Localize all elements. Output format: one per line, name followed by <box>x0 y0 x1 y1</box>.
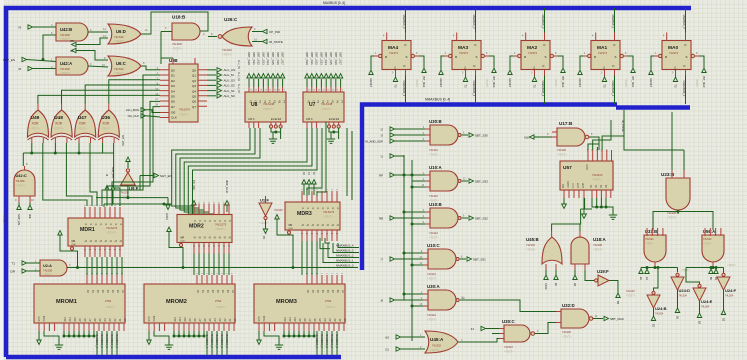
svg-text:<TEXT>: <TEXT> <box>592 178 602 182</box>
svg-text:74LS04: 74LS04 <box>679 295 688 298</box>
terminal SOP_EN <box>22 57 27 61</box>
svg-text:<TEXT>: <TEXT> <box>485 79 488 89</box>
svg-text:D: D <box>404 64 406 68</box>
wire U24:E output <box>699 301 701 313</box>
svg-text:SBT_S33: SBT_S33 <box>319 52 323 65</box>
wire xor staircase 1 <box>66 143 92 206</box>
svg-text:Q1: Q1 <box>192 74 196 78</box>
svg-text:Y6_AND_SOP: Y6_AND_SOP <box>365 140 383 144</box>
svg-text:XOR: XOR <box>79 122 87 126</box>
ALU output terminals of U38 <box>207 69 216 71</box>
wire U45:A out to U30:C <box>458 339 499 343</box>
svg-text:<TEXT>: <TEXT> <box>429 236 439 240</box>
svg-text:D: D <box>614 43 616 47</box>
svg-text:VPP: VPP <box>148 316 151 321</box>
wire xor staircase 3 <box>114 143 120 206</box>
svg-text:Q6: Q6 <box>192 100 196 104</box>
input rails right region <box>403 155 405 300</box>
svg-text:U48: U48 <box>54 115 63 121</box>
svg-text:<TEXT>: <TEXT> <box>427 318 437 322</box>
terminal SBT_MA0 <box>593 318 603 320</box>
pins U57 bottom <box>564 190 584 198</box>
xor gate U49 <box>28 110 49 137</box>
svg-text:SBT_S31: SBT_S31 <box>252 52 256 65</box>
svg-text:SBT_S37: SBT_S37 <box>339 52 343 65</box>
svg-text:ALU_S0: ALU_S0 <box>237 60 240 70</box>
svg-text:SBT_S32: SBT_S32 <box>257 52 261 65</box>
svg-text:MAXBUS_2: MAXBUS_2 <box>541 15 545 29</box>
svg-text:74LS74: 74LS74 <box>598 51 608 55</box>
terminal F1 to U30:C <box>481 326 486 330</box>
svg-text:ALU_S2: ALU_S2 <box>237 84 240 94</box>
pin MA3 clk bottom <box>466 70 476 76</box>
or gate U45:B 74LS32 vertical <box>542 237 562 264</box>
svg-text:U19:F: U19:F <box>597 269 609 274</box>
svg-text:<TEXT>: <TEXT> <box>562 335 572 339</box>
svg-text:U45:A: U45:A <box>430 337 444 342</box>
svg-text:MAXBUS_3: MAXBUS_3 <box>472 15 476 29</box>
pins MROM3 top <box>307 275 342 284</box>
svg-text:U45:B: U45:B <box>526 237 539 242</box>
eprom MROM1 2764 <box>34 284 125 323</box>
wire U6:C out to U38 D0 <box>141 66 160 70</box>
wire MA3 Q to BIT terminal <box>489 56 494 68</box>
svg-text:SBT_S32: SBT_S32 <box>315 52 319 65</box>
svg-text:MAXBUS_1: MAXBUS_1 <box>110 334 114 348</box>
pin U49 output top <box>37 104 39 111</box>
svg-text:<TEXT>: <TEXT> <box>30 127 40 131</box>
wire clock net long horizontal <box>67 267 358 269</box>
bus entries MROM1 <box>96 331 98 355</box>
pins MDR2 top <box>194 204 229 215</box>
wire MA3 reset terminal <box>441 56 444 70</box>
svg-text:U24:F: U24:F <box>725 288 737 293</box>
svg-text:<TEXT>: <TEXT> <box>504 350 514 354</box>
svg-text:MR: MR <box>72 240 76 243</box>
ground wiring U7 <box>329 128 339 132</box>
svg-text:CLK: CLK <box>72 244 77 246</box>
wire bundle U7 to MDR3 tops <box>307 128 322 196</box>
wire MA2 to MAXBUS <box>544 8 546 33</box>
svg-text:BIT_MA4: BIT_MA4 <box>422 77 426 88</box>
svg-text:SBT_S35: SBT_S35 <box>271 52 275 65</box>
xor gate U47 <box>75 110 96 137</box>
pins U38 bottom left OE CLK <box>160 113 169 118</box>
svg-text:D: D <box>321 208 324 210</box>
svg-text:SBT_S30: SBT_S30 <box>247 52 251 65</box>
svg-text:ALU_S1: ALU_S1 <box>237 72 240 82</box>
svg-text:MROM3: MROM3 <box>276 299 297 305</box>
pins U45:B <box>546 231 556 270</box>
svg-text:2764: 2764 <box>105 299 112 303</box>
svg-text:XOR: XOR <box>102 122 110 126</box>
svg-text:RESET: RESET <box>578 79 582 88</box>
wire xor staircase 2 <box>90 143 97 206</box>
svg-text:<TEXT>: <TEXT> <box>222 53 233 57</box>
svg-text:<TEXT>: <TEXT> <box>323 215 334 219</box>
svg-text:74LS32: 74LS32 <box>432 344 442 348</box>
wire to U24:D input <box>677 268 679 273</box>
pin U47 output top <box>84 104 86 111</box>
svg-text:SBT_S30: SBT_S30 <box>305 52 309 65</box>
svg-text:U42:A: U42:A <box>60 61 72 66</box>
svg-text:NMAXBUS [0..4]: NMAXBUS [0..4] <box>425 98 450 102</box>
svg-text:D: D <box>223 220 226 222</box>
power terminal MROM2 <box>148 331 150 340</box>
svg-text:U42:B: U42:B <box>60 27 72 32</box>
wire MA3 to MAXBUS <box>475 8 477 33</box>
flip-flop MA3 74LS74 <box>452 41 481 70</box>
svg-text:74LS10: 74LS10 <box>504 345 514 349</box>
svg-text:Q: Q <box>208 237 211 239</box>
svg-text:D: D <box>198 220 201 222</box>
arrows above U8 <box>247 74 251 79</box>
svg-text:RP: RP <box>379 174 383 178</box>
svg-text:MAXBUS_1: MAXBUS_1 <box>220 334 224 348</box>
pins U23:B top <box>672 170 684 178</box>
svg-text:<TEXT>: <TEXT> <box>54 127 64 131</box>
svg-text:74LS74: 74LS74 <box>669 51 679 55</box>
svg-text:D6: D6 <box>171 100 175 104</box>
wire U6:D output loop over U18:B <box>141 12 208 34</box>
svg-text:Q: Q <box>203 237 206 239</box>
clock wiring MDR2 <box>167 227 171 232</box>
clock wiring MDR1 <box>58 231 62 236</box>
svg-text:Q: Q <box>213 237 216 239</box>
terminal I9 input to U42:B <box>28 25 33 29</box>
nand gate U10:B <box>430 208 458 228</box>
wires MDR1 to MROM1 <box>86 257 88 275</box>
svg-text:C2OF: C2OF <box>544 283 547 290</box>
pins U38 top <box>173 58 195 64</box>
wire U38 D6 D7 from left bundle <box>150 101 160 152</box>
wire U18:B to U26:C <box>208 36 217 38</box>
svg-text:Q: Q <box>326 224 329 226</box>
svg-text:<TEXT>: <TEXT> <box>645 243 655 246</box>
svg-text:Q: Q <box>218 237 221 239</box>
svg-text:D: D <box>336 208 339 210</box>
svg-text:NMAXBUS_3: NMAXBUS_3 <box>472 81 476 97</box>
wire U17:B output <box>589 137 599 150</box>
svg-text:D: D <box>301 208 304 210</box>
pin MA3 reset with bubble <box>449 54 452 57</box>
svg-text:CLK: CLK <box>572 183 575 188</box>
svg-text:74LS374: 74LS374 <box>179 108 190 112</box>
wire rail below MROM3 <box>284 331 314 336</box>
wire U33:B output <box>654 262 656 266</box>
svg-text:SOP_MN: SOP_MN <box>111 167 114 178</box>
wire MA4 to MAXBUS <box>405 8 407 33</box>
svg-text:Q: Q <box>114 240 117 242</box>
inverter U24:B 74LS04 pointing down <box>647 295 660 308</box>
svg-text:D: D <box>405 43 407 47</box>
wires MDR2 to MROM2 <box>193 254 195 276</box>
nand gate U10:C <box>428 249 456 269</box>
pins MROM3 bottom <box>259 323 275 331</box>
svg-text:SBT_S35: SBT_S35 <box>329 52 333 65</box>
wire U24:F output <box>723 290 725 310</box>
inverter U19:F 74LS04 <box>598 275 609 286</box>
wire U30:A out to U32:D <box>460 300 556 312</box>
svg-text:MAXBUS_3: MAXBUS_3 <box>210 334 214 348</box>
wires XOR outputs to U38 D rows <box>38 95 160 103</box>
and gate U42:A 74LS08 <box>56 57 88 75</box>
terminal SHT_EN output <box>139 176 141 191</box>
wire U42:B out to U6:D <box>88 31 108 33</box>
pins U36 inputs bottom <box>103 138 115 143</box>
svg-text:A10: A10 <box>184 316 187 321</box>
svg-text:74LS10: 74LS10 <box>429 231 439 235</box>
svg-text:74LS163: 74LS163 <box>592 173 603 177</box>
svg-text:A12: A12 <box>64 316 67 321</box>
register MDR3 74LS273 <box>285 202 340 230</box>
terminal IRE below U42:C <box>29 203 31 205</box>
svg-text:LOAD: LOAD <box>567 181 570 188</box>
svg-text:E1 E2 E3: E1 E2 E3 <box>271 118 282 121</box>
inverter U9:E 74LS04 <box>126 169 129 172</box>
svg-text:D: D <box>331 208 334 210</box>
clock wiring MDR3 <box>275 215 279 220</box>
svg-text:MAXBUS_0: MAXBUS_0 <box>225 334 229 348</box>
svg-text:ALU_BUS: ALU_BUS <box>126 108 139 112</box>
pins MA0 top <box>667 33 686 41</box>
svg-text:74LS10: 74LS10 <box>429 194 439 198</box>
pins U8 bottom left <box>249 122 259 128</box>
nand gate U30:A <box>428 290 456 310</box>
wire U36 left input to rail <box>102 143 104 153</box>
svg-text:D: D <box>94 224 97 226</box>
svg-text:Q: Q <box>109 240 112 242</box>
eprom MROM2 2764 <box>144 284 235 323</box>
svg-text:<TEXT>: <TEXT> <box>259 222 269 225</box>
svg-text:Q: Q <box>321 224 324 226</box>
svg-text:D: D <box>326 208 329 210</box>
svg-text:U1:F: U1:F <box>260 198 269 203</box>
svg-text:MA0: MA0 <box>668 45 678 51</box>
output SBT_S32 <box>462 217 468 219</box>
svg-text:U30:C: U30:C <box>502 319 516 324</box>
svg-text:I9: I9 <box>18 26 21 30</box>
pins U38 right <box>198 70 207 106</box>
svg-text:BIT_MA0: BIT_MA0 <box>702 77 706 88</box>
wire bundle U7 to MDR2 pins <box>184 128 307 212</box>
svg-text:SBT_S30: SBT_S30 <box>475 134 488 138</box>
svg-text:MR: MR <box>562 184 565 188</box>
junction U9:E input <box>126 196 129 199</box>
svg-text:SBT_S31: SBT_S31 <box>310 52 314 65</box>
svg-text:74LS08: 74LS08 <box>593 243 603 247</box>
svg-text:74LS273: 74LS273 <box>323 210 335 214</box>
svg-text:S: S <box>405 55 407 59</box>
pin MA1 reset with bubble <box>588 54 591 57</box>
pin MA4 clk bottom <box>396 70 406 76</box>
svg-text:I11: I11 <box>385 348 389 352</box>
flip-flop MA1 74LS74 <box>591 41 620 70</box>
wire MA1 D to NMAXBUS <box>614 76 616 105</box>
output SBT_S33 <box>462 180 468 182</box>
svg-text:D0: D0 <box>171 69 175 73</box>
svg-text:MAXBUS_2: MAXBUS_2 <box>215 334 219 348</box>
inverter U24:E 74LS04 pointing down <box>693 288 706 301</box>
inputs U10:A <box>390 154 395 158</box>
svg-text:NMAXBUS_1: NMAXBUS_1 <box>336 259 354 263</box>
flip-flop MA0 74LS74 <box>662 41 691 70</box>
wires U23:B inputs up <box>671 112 673 170</box>
wires U57 bottom to ground <box>564 198 585 214</box>
junction clock MDR1 <box>76 266 79 269</box>
svg-text:Q: Q <box>301 224 304 226</box>
svg-text:<TEXT>: <TEXT> <box>430 349 440 353</box>
pins U56:A top <box>705 228 721 236</box>
svg-text:RESET: RESET <box>439 79 443 88</box>
pins MDR3 top <box>302 191 337 202</box>
svg-text:D: D <box>89 224 92 226</box>
wire U19:F output right to terminal <box>609 281 618 294</box>
svg-text:D: D <box>613 64 615 68</box>
wires right of U7 down <box>346 128 348 196</box>
svg-text:U10:A: U10:A <box>429 165 443 170</box>
svg-text:I8: I8 <box>18 67 21 71</box>
svg-text:<TEXT>: <TEXT> <box>415 79 418 89</box>
svg-text:S: S <box>544 55 546 59</box>
svg-text:MR: MR <box>181 237 185 240</box>
pins U8 top <box>249 87 283 92</box>
svg-text:NMAXBUS_1: NMAXBUS_1 <box>611 81 615 97</box>
svg-text:RB: RB <box>379 217 383 221</box>
wire U48 left input to rail <box>54 143 56 153</box>
terminal I8 input to U42:A <box>28 66 33 70</box>
wire U1:F output down <box>265 220 267 229</box>
svg-text:Q: Q <box>223 237 226 239</box>
svg-text:D: D <box>208 220 211 222</box>
inverter U24:D 74LS04 pointing down <box>671 277 684 290</box>
and gate U23:B 74LS08 vertical <box>666 178 690 210</box>
svg-text:2764: 2764 <box>215 299 222 303</box>
inputs U30:A <box>404 293 423 295</box>
wire xor staircase 0 <box>43 143 87 206</box>
terminal T2 MA3 <box>465 76 467 77</box>
svg-text:U36: U36 <box>101 115 110 121</box>
svg-text:74LS10: 74LS10 <box>427 313 437 317</box>
svg-text:MDR2: MDR2 <box>189 224 204 230</box>
svg-text:ALU_S1: ALU_S1 <box>224 89 236 93</box>
svg-text:U24:D: U24:D <box>679 288 691 293</box>
pins U47 inputs bottom <box>79 138 91 143</box>
wire U47 left input to rail <box>78 143 80 153</box>
svg-text:Q: Q <box>94 240 97 242</box>
svg-text:CLK: CLK <box>171 116 177 120</box>
wire SHT_EN to U9:E bubble <box>127 162 129 169</box>
pin U36 output top <box>108 104 110 111</box>
svg-text:<TEXT>: <TEXT> <box>626 295 636 298</box>
svg-text:RCO: RCO <box>586 164 589 170</box>
counter U57 74LS163 <box>560 161 613 190</box>
wire rail branch down to U42:C output <box>22 153 24 166</box>
inverter U24:F 74LS04 pointing down <box>717 277 730 290</box>
and gate U42:C 74LS08 vertical <box>14 170 35 196</box>
svg-text:<TEXT>: <TEXT> <box>727 264 737 267</box>
svg-text:U18:A: U18:A <box>593 237 607 242</box>
flip-flop MA4 74LS74 <box>382 41 411 70</box>
pins U30:A <box>423 294 428 306</box>
wire MA1 to MAXBUS <box>614 8 616 33</box>
terminal IR_STATE <box>252 41 262 43</box>
wire MA0 reset terminal <box>651 56 654 70</box>
terminal SHT_EN arrow <box>126 157 130 162</box>
svg-text:D: D <box>203 220 206 222</box>
svg-text:U6:C: U6:C <box>116 61 126 66</box>
svg-text:Q4: Q4 <box>192 89 196 93</box>
svg-text:Q: Q <box>316 224 319 226</box>
arrows above U7 <box>305 74 309 79</box>
svg-text:A12: A12 <box>174 316 177 321</box>
svg-text:74LS04: 74LS04 <box>274 209 283 212</box>
svg-text:<TEXT>: <TEXT> <box>43 274 53 277</box>
wire horizontal net B <box>104 203 172 205</box>
svg-text:SBT_S31: SBT_S31 <box>473 258 486 262</box>
wire to U24:F input <box>723 268 725 275</box>
pins U18:A <box>575 231 585 270</box>
decoder U7 74LS138 <box>303 92 344 122</box>
pins U10:A <box>425 175 430 187</box>
svg-text:<TEXT>: <TEXT> <box>60 71 71 75</box>
wires MDR3 to MROM3 <box>301 241 303 275</box>
svg-text:Q: Q <box>119 240 122 242</box>
wire MA0 to MAXBUS <box>685 8 687 33</box>
svg-text:ALU_M: ALU_M <box>224 73 235 77</box>
svg-text:U30:B: U30:B <box>429 119 442 124</box>
svg-text:74LS32: 74LS32 <box>526 243 536 247</box>
svg-text:Q: Q <box>306 224 309 226</box>
svg-text:ALU_S2: ALU_S2 <box>224 84 236 88</box>
svg-text:U57: U57 <box>563 165 572 171</box>
pins U10:B <box>425 212 430 224</box>
pins MA3 top <box>457 33 476 41</box>
svg-text:<TEXT>: <TEXT> <box>179 113 189 117</box>
svg-text:D: D <box>475 43 477 47</box>
svg-text:BIT_MA2: BIT_MA2 <box>561 77 565 88</box>
pins U7 bottom right with bubbles <box>328 122 330 125</box>
svg-text:SBT_S36: SBT_S36 <box>276 52 280 65</box>
svg-text:U23:B: U23:B <box>661 172 675 177</box>
terminal T2 MA4 <box>395 76 397 77</box>
svg-text:MAXBUS_0: MAXBUS_0 <box>335 334 339 348</box>
svg-text:RESET: RESET <box>369 79 373 88</box>
svg-text:SOP_EN: SOP_EN <box>17 214 21 225</box>
svg-text:<TEXT>: <TEXT> <box>325 305 336 309</box>
wire MA4 D to NMAXBUS <box>405 76 407 105</box>
svg-text:74LS21: 74LS21 <box>703 238 712 241</box>
terminal SOP_EN below U42:C <box>18 203 20 205</box>
output SBT_S31 <box>460 258 466 260</box>
pin MA4 reset with bubble <box>379 54 382 57</box>
svg-text:Q: Q <box>84 240 87 242</box>
svg-text:74LS08: 74LS08 <box>43 269 53 273</box>
junction clock MDR3 <box>292 266 295 269</box>
svg-text:CP_IND: CP_IND <box>269 30 281 34</box>
pin MA0 clk bottom <box>676 70 686 76</box>
svg-text:NMAXBUS_0: NMAXBUS_0 <box>336 264 354 268</box>
svg-text:NMAXBUS_4: NMAXBUS_4 <box>336 244 354 248</box>
decoder U8 74LS138 <box>245 92 286 122</box>
pins U30:B <box>425 129 430 141</box>
svg-text:<TEXT>: <TEXT> <box>526 248 536 252</box>
wire MA2 D to NMAXBUS <box>544 76 546 105</box>
svg-text:SBT_S37: SBT_S37 <box>281 52 285 65</box>
pins MA1 top <box>596 33 615 41</box>
svg-text:Q7: Q7 <box>192 105 196 109</box>
svg-text:IRI: IRI <box>70 39 74 43</box>
